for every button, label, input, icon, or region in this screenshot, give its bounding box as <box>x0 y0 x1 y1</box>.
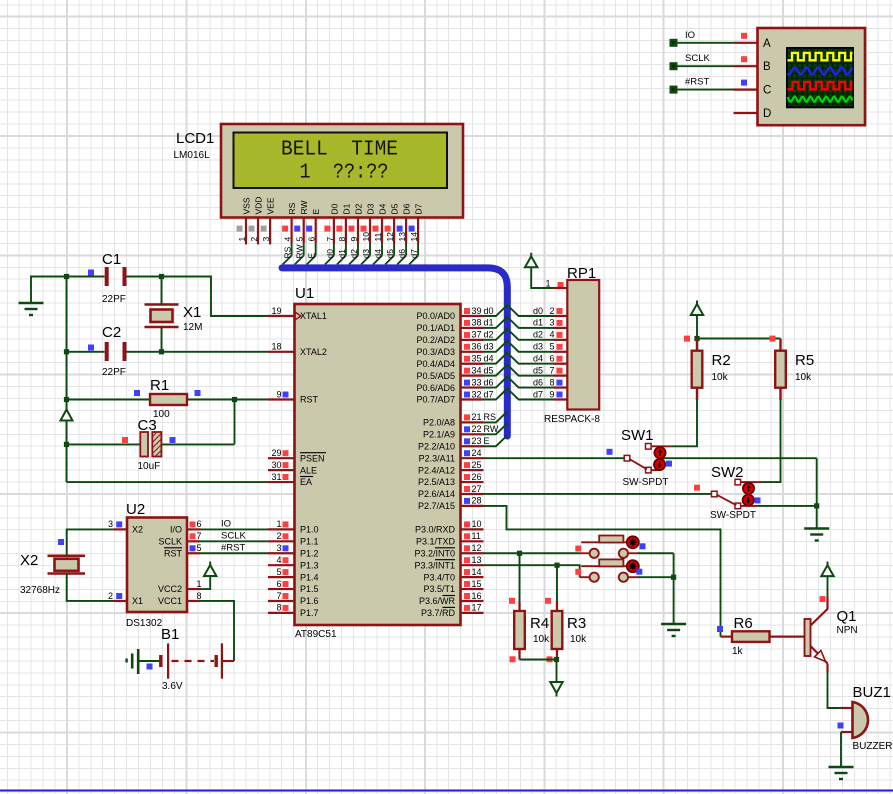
U1 left pin 7 indicator <box>283 593 289 599</box>
power arrow above R2 <box>696 301 698 305</box>
wire R6 to Q1 base <box>770 635 805 637</box>
junction buttons rail <box>671 575 676 580</box>
svg-text:8: 8 <box>550 377 555 387</box>
svg-text:37: 37 <box>472 330 482 340</box>
scope waveform channel A (yellow square) <box>788 53 853 60</box>
RP1 pin 6 stub <box>554 363 568 365</box>
LCD pin 10 stub <box>369 217 371 243</box>
svg-text:SCLK: SCLK <box>685 53 710 64</box>
R3 top indicator <box>545 598 551 604</box>
wire R6 left lead <box>721 635 733 637</box>
LCD pin 1 stub <box>245 217 247 244</box>
svg-text:LM016L: LM016L <box>174 150 211 161</box>
svg-text:SCLK: SCLK <box>221 530 246 541</box>
wire P0.3 to bus <box>484 341 554 352</box>
X2 indicator <box>58 539 64 545</box>
svg-text:XTAL1: XTAL1 <box>300 311 327 321</box>
svg-text:SW-SPDT: SW-SPDT <box>710 510 756 521</box>
LCD pin 3 stub <box>269 217 271 244</box>
U2 pin 3 stub <box>114 528 127 530</box>
capacitor C1 <box>107 267 125 286</box>
svg-text:2: 2 <box>550 306 555 316</box>
U1 left pin 3 stub <box>268 552 295 554</box>
SW1 state indicator <box>666 461 672 467</box>
button1 actuator indicator <box>627 536 639 548</box>
LCD pin 6 indicator <box>306 226 312 232</box>
svg-text:d1: d1 <box>533 318 543 328</box>
RP1 pin 5 stub <box>554 351 568 353</box>
SW2 state indicator <box>755 497 761 503</box>
power arrow at VCC2 <box>209 562 211 566</box>
junction X1 top <box>159 274 164 279</box>
terminal on #RST wire <box>670 86 678 94</box>
wire P2.3 to SW1 common <box>484 457 625 459</box>
svg-text:P1.1: P1.1 <box>300 537 319 547</box>
wire P2.2 to bus <box>484 435 508 446</box>
svg-text:P0.5/AD5: P0.5/AD5 <box>416 371 455 381</box>
resistor R3 <box>552 611 563 649</box>
LCD pin 14 bus entry <box>409 256 418 265</box>
RP1 pin 1 stub <box>554 287 568 289</box>
LCD pin 14 stub <box>417 217 419 243</box>
svg-text:12: 12 <box>472 543 482 553</box>
R5 bottom lead <box>779 388 781 400</box>
RP1 pin 6 indicator <box>557 356 563 362</box>
U1 left pin 2 stub <box>268 540 295 542</box>
scope pin C stub <box>734 88 758 90</box>
RP1 pin 8 stub <box>554 386 568 388</box>
svg-text:PSEN: PSEN <box>300 453 325 463</box>
logic state square A <box>741 33 747 39</box>
SW2 throw1 pin <box>740 481 762 483</box>
U2 pin 7 stub <box>187 540 201 542</box>
svg-text:d5: d5 <box>533 365 543 375</box>
svg-text:RW: RW <box>299 200 309 214</box>
U1 right pin 11 stub <box>461 540 484 542</box>
power arrow above Q1 <box>827 562 829 566</box>
wire P2.7 to R6 <box>484 506 721 637</box>
LCD1 screen <box>234 133 448 189</box>
R5 top lead <box>779 339 781 351</box>
svg-text:P2.7/A15: P2.7/A15 <box>418 501 455 511</box>
R2 bottom lead <box>696 388 698 400</box>
U1 right pin 23 stub <box>461 445 484 447</box>
U1 right pin 21 indicator <box>464 414 470 420</box>
svg-text:P1.4: P1.4 <box>300 572 319 582</box>
LCD pin 6 bus entry <box>307 256 316 265</box>
svg-text:Q1: Q1 <box>837 608 857 625</box>
LCD pin 1 indicator <box>237 226 243 232</box>
svg-text:BUZZER: BUZZER <box>853 741 893 752</box>
U1 right pin 34 indicator <box>464 368 470 374</box>
svg-text:1 ??:??: 1 ??:?? <box>300 161 389 185</box>
wire R4 top lead <box>519 553 521 611</box>
svg-text:P2.6/A14: P2.6/A14 <box>418 489 455 499</box>
U1 left pin 4 indicator <box>283 557 289 563</box>
U1 left pin 6 stub <box>268 588 295 590</box>
U1 left pin 3 indicator <box>283 545 289 551</box>
svg-text:P2.2/A10: P2.2/A10 <box>418 442 455 452</box>
svg-text:SW2: SW2 <box>711 464 744 481</box>
SW1 button up <box>654 447 665 458</box>
U2 pin 3 indicator <box>116 521 122 527</box>
svg-text:d2: d2 <box>533 330 543 340</box>
svg-text:P1.2: P1.2 <box>300 549 319 559</box>
svg-text:P0.2/AD2: P0.2/AD2 <box>416 335 455 345</box>
logic state square C <box>741 80 747 86</box>
U1 right pin 21 stub <box>461 421 484 423</box>
svg-text:14: 14 <box>472 567 482 577</box>
wire U2 pin 5 to U1 <box>201 552 269 554</box>
svg-text:22PF: 22PF <box>102 367 126 378</box>
wire SW1 throw2 to ground rail <box>661 457 817 459</box>
SW1 throw2 jog <box>651 469 661 471</box>
junction C3 left <box>64 442 69 447</box>
svg-text:d3: d3 <box>533 342 543 352</box>
LCD pin 9 bus entry <box>349 256 358 265</box>
wire P3.2 to button1 <box>484 552 581 554</box>
U2 pin 6 indicator <box>190 521 196 527</box>
svg-text:R5: R5 <box>795 352 814 369</box>
svg-text:1: 1 <box>237 237 247 242</box>
svg-text:I/O: I/O <box>170 525 182 535</box>
svg-text:D: D <box>763 108 771 120</box>
svg-text:10k: 10k <box>533 634 550 645</box>
scope waveform channel B (blue sine) <box>788 67 853 74</box>
U2 pin 6 stub <box>187 528 201 530</box>
SW2 throw2 pin <box>740 505 758 507</box>
R1 indicator right <box>195 390 201 396</box>
wire VCC1 to battery <box>201 601 235 661</box>
svg-text:P3.1/TXD: P3.1/TXD <box>416 537 456 547</box>
resistor R1 <box>150 394 187 405</box>
LCD pin 7 wire segment <box>333 243 335 256</box>
capacitor C3 (electrolytic) <box>140 432 148 457</box>
R3 bottom lead <box>556 649 558 660</box>
U1 right pin 27 stub <box>461 493 484 495</box>
svg-text:d6: d6 <box>397 249 407 259</box>
U1 left pin 31 indicator <box>283 474 289 480</box>
svg-text:31: 31 <box>271 472 281 482</box>
svg-text:D1: D1 <box>341 203 351 214</box>
wire IO to scope A <box>674 42 734 44</box>
svg-text:39: 39 <box>472 306 482 316</box>
U1 right pin 13 indicator <box>464 557 470 563</box>
RP1 pin 2 stub <box>554 315 568 317</box>
svg-text:P1.0: P1.0 <box>300 525 319 535</box>
U1 right pin 23 indicator <box>464 438 470 444</box>
LCD pin 8 indicator <box>336 226 342 232</box>
LCD pin 13 indicator <box>397 226 403 232</box>
svg-text:5: 5 <box>550 342 555 352</box>
U2 pin 5 indicator <box>190 545 196 551</box>
U1 right pin 11 indicator <box>464 533 470 539</box>
U2 pin 2 stub <box>114 600 127 602</box>
wire power to VCC2 <box>201 576 211 589</box>
svg-text:22PF: 22PF <box>102 294 126 305</box>
svg-text:6: 6 <box>550 354 555 364</box>
RP1 pin 4 indicator <box>557 332 563 338</box>
svg-text:E: E <box>307 253 317 259</box>
LCD pin 10 indicator <box>361 226 367 232</box>
wire button2 right <box>637 576 674 578</box>
U1 right pin 17 stub <box>461 612 484 614</box>
svg-text:6: 6 <box>197 519 202 529</box>
R5 top indicator <box>770 336 776 342</box>
button2 actuator indicator <box>627 560 639 572</box>
U1 left pin 29 indicator <box>283 450 289 456</box>
svg-text:P2.1/A9: P2.1/A9 <box>423 430 455 440</box>
capacitor C2 <box>107 342 125 361</box>
svg-text:9: 9 <box>550 389 555 399</box>
svg-text:P2.0/A8: P2.0/A8 <box>423 418 455 428</box>
wire C1 left to ground <box>31 277 105 304</box>
transistor Q1 <box>805 619 811 656</box>
svg-text:D6: D6 <box>402 203 412 214</box>
power down arrow <box>556 693 558 697</box>
svg-text:P0.3/AD3: P0.3/AD3 <box>416 347 455 357</box>
terminal on IO wire <box>670 39 678 47</box>
svg-text:R3: R3 <box>567 615 586 632</box>
wire P0.0 to bus <box>484 305 554 316</box>
RP1 pin 9 indicator <box>557 392 563 398</box>
svg-text:35: 35 <box>472 354 482 364</box>
U1 left pin 30 stub <box>268 469 295 471</box>
scope pin B stub <box>734 65 758 67</box>
svg-text:X1: X1 <box>132 596 143 606</box>
U1 right pin 25 stub <box>461 469 484 471</box>
U1 right pin 26 indicator <box>464 474 470 480</box>
wire power to R2/R5 <box>697 315 781 339</box>
svg-text:P3.0/RXD: P3.0/RXD <box>415 525 456 535</box>
svg-text:P2.4/A12: P2.4/A12 <box>418 465 455 475</box>
svg-text:IO: IO <box>221 518 231 529</box>
svg-text:B: B <box>763 61 771 73</box>
svg-text:C: C <box>763 85 771 97</box>
wire to down arrow <box>556 660 558 682</box>
wire battery left <box>138 660 160 662</box>
U1 right pin 22 indicator <box>464 426 470 432</box>
svg-text:R4: R4 <box>530 615 549 632</box>
RP1 body <box>567 280 599 410</box>
scope waveform channel D (green sine) <box>788 97 853 102</box>
U1 left pin 8 stub <box>268 612 295 614</box>
RP1 pin 5 indicator <box>557 344 563 350</box>
SW2 button down <box>743 495 754 506</box>
svg-text:7: 7 <box>197 531 202 541</box>
U1 left pin 5 stub <box>268 576 295 578</box>
scope pin A stub <box>734 42 758 44</box>
LCD pin 11 indicator <box>373 226 379 232</box>
terminal on SCLK wire <box>670 62 678 70</box>
LCD pin 12 stub <box>393 217 395 243</box>
LCD pin 6 wire segment <box>315 243 317 256</box>
svg-text:E: E <box>484 436 490 446</box>
LCD pin 6 stub <box>315 217 317 243</box>
R4 top red lead <box>518 602 520 611</box>
button2 state indicator <box>636 569 642 575</box>
junction R4 top <box>517 551 522 556</box>
RP1 pin 7 stub <box>554 375 568 377</box>
wire R2 top lead <box>696 339 698 351</box>
svg-text:RST: RST <box>300 395 319 405</box>
U1 right pin 10 indicator <box>464 521 470 527</box>
svg-text:1k: 1k <box>732 646 744 657</box>
U1 left pin 2 indicator <box>283 533 289 539</box>
ground rail right <box>816 458 818 527</box>
LCD pin 9 wire segment <box>357 243 359 256</box>
svg-text:1: 1 <box>545 279 550 289</box>
junction R1 left <box>64 397 69 402</box>
svg-text:6: 6 <box>307 237 317 242</box>
LCD pin 12 wire segment <box>393 243 395 256</box>
svg-text:13: 13 <box>472 555 482 565</box>
U1 left pin 9 indicator <box>283 392 289 398</box>
svg-text:C2: C2 <box>102 324 121 341</box>
LCD pin 12 indicator <box>385 226 391 232</box>
button2 left indicator <box>575 569 581 575</box>
LCD pin 4 indicator <box>282 226 288 232</box>
wire #RST to scope C <box>674 89 734 91</box>
U1 left pin 7 stub <box>268 600 295 602</box>
svg-text:A: A <box>763 38 771 50</box>
RP1 pin 9 stub <box>554 398 568 400</box>
ground below buttons <box>661 624 686 636</box>
svg-text:8: 8 <box>276 603 281 613</box>
C3 indicator right <box>170 437 176 443</box>
svg-text:3.6V: 3.6V <box>162 681 183 692</box>
wire P0.5 to bus <box>484 365 554 376</box>
wire U2 pin 6 to U1 <box>201 528 269 530</box>
LCD pin 11 stub <box>381 217 383 243</box>
svg-text:10k: 10k <box>570 634 587 645</box>
U2 VCC2 stub <box>187 588 201 590</box>
svg-text:#RST: #RST <box>685 77 709 88</box>
U1 right pin 35 indicator <box>464 356 470 362</box>
LCD pin 12 bus entry <box>385 256 394 265</box>
logic state square B <box>741 56 747 62</box>
wire P0.1 to bus <box>484 317 554 328</box>
svg-text:12M: 12M <box>183 322 202 333</box>
R2 top indicator <box>684 336 690 342</box>
RP1 pin 4 stub <box>554 339 568 341</box>
svg-text:VDD: VDD <box>254 197 264 215</box>
U2 body <box>127 518 187 613</box>
wire P3.3 to button2 <box>484 565 580 577</box>
C3 indicator left <box>122 437 128 443</box>
svg-text:22: 22 <box>472 424 482 434</box>
svg-text:9: 9 <box>349 237 359 242</box>
U1 left pin 31 stub <box>268 481 295 483</box>
LCD pin 14 wire segment <box>417 243 419 256</box>
svg-text:X2: X2 <box>20 552 38 569</box>
wire R1 right to RST <box>187 399 268 401</box>
wire button1 right <box>637 552 674 554</box>
svg-text:12: 12 <box>385 232 395 242</box>
U2 pin 7 indicator <box>190 533 196 539</box>
svg-text:16: 16 <box>472 591 482 601</box>
svg-text:1: 1 <box>197 579 202 589</box>
R4 top indicator <box>509 598 515 604</box>
svg-text:d3: d3 <box>484 342 494 352</box>
svg-text:AT89C51: AT89C51 <box>295 629 337 640</box>
ground below BUZ1 <box>829 767 854 779</box>
LCD pin 5 indicator <box>294 226 300 232</box>
wire P0.7 to bus <box>484 389 554 400</box>
svg-text:P3.4/T0: P3.4/T0 <box>423 572 455 582</box>
svg-text:18: 18 <box>271 342 281 352</box>
svg-text:23: 23 <box>472 436 482 446</box>
svg-text:6: 6 <box>276 579 281 589</box>
U1 right pin 38 stub <box>461 327 484 329</box>
U1 right pin 16 stub <box>461 600 484 602</box>
svg-text:P2.3/A11: P2.3/A11 <box>419 453 455 463</box>
U1 right pin 38 indicator <box>464 320 470 326</box>
switch SW1 <box>646 444 652 450</box>
svg-text:14: 14 <box>409 232 419 242</box>
svg-text:RESPACK-8: RESPACK-8 <box>544 414 600 425</box>
LCD pin 13 stub <box>405 217 407 243</box>
svg-text:U2: U2 <box>126 501 145 518</box>
U1 right pin 37 indicator <box>464 332 470 338</box>
svg-text:3: 3 <box>276 543 281 553</box>
scope waveform channel C (red square) <box>788 82 853 89</box>
wire EA <box>67 481 269 483</box>
U1 right pin 36 indicator <box>464 344 470 350</box>
svg-text:RS: RS <box>287 202 297 214</box>
LCD1 body <box>221 124 463 218</box>
LCD pin 7 stub <box>333 217 335 243</box>
R3 bottom indicator <box>547 656 553 662</box>
wire power to Q1 collector <box>827 576 829 596</box>
LCD pin 13 wire segment <box>405 243 407 256</box>
svg-text:5: 5 <box>295 237 305 242</box>
svg-text:U1: U1 <box>295 285 314 302</box>
svg-text:P0.6/AD6: P0.6/AD6 <box>416 383 455 393</box>
svg-text:5: 5 <box>197 543 202 553</box>
U1 right pin 13 stub <box>461 564 484 566</box>
U1 right pin 34 stub <box>461 375 484 377</box>
LCD pin 2 indicator <box>249 226 255 232</box>
svg-text:R2: R2 <box>712 352 731 369</box>
svg-text:SCLK: SCLK <box>158 537 182 547</box>
LCD pin 5 wire segment <box>303 243 305 256</box>
svg-text:34: 34 <box>472 365 482 375</box>
U1 right pin 33 stub <box>461 386 484 388</box>
svg-text:7: 7 <box>276 591 281 601</box>
svg-text:XTAL2: XTAL2 <box>300 347 327 357</box>
switch SW2 <box>735 479 741 485</box>
U2 VCC1 stub <box>187 600 201 602</box>
junction C2 left <box>64 349 69 354</box>
U1 left pin 29 stub <box>268 457 295 459</box>
LCD pin 10 wire segment <box>369 243 371 256</box>
svg-text:32768Hz: 32768Hz <box>20 585 60 596</box>
LCD pin 4 wire segment <box>291 243 293 256</box>
LCD pin 8 stub <box>345 217 347 243</box>
crystal X2 <box>48 554 86 557</box>
svg-text:P3.7/RD: P3.7/RD <box>421 608 456 618</box>
U1 left pin 9 stub <box>268 398 295 400</box>
junction RST <box>232 397 237 402</box>
wire BUZ1 to ground <box>840 732 842 767</box>
R4 bottom lead <box>518 649 520 660</box>
svg-text:IO: IO <box>685 30 695 41</box>
svg-text:d4: d4 <box>484 354 494 364</box>
svg-text:D7: D7 <box>414 203 424 214</box>
junction SW2 throw2 <box>814 503 819 508</box>
U1 right pin 32 stub <box>461 398 484 400</box>
